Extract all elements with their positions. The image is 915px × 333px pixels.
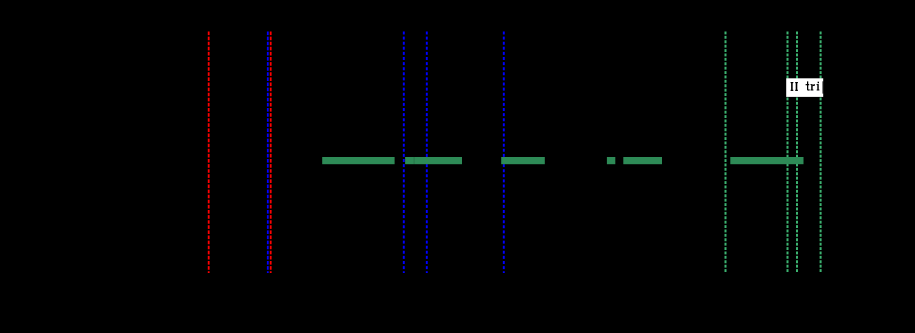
annotation label white box xyxy=(786,78,823,97)
blue dashed vline 4 xyxy=(503,32,505,274)
label clipped glyph stem at box edge xyxy=(822,81,825,93)
red dashed vline pair-right xyxy=(270,32,272,274)
label glyph i xyxy=(818,82,819,84)
label glyph I (2) xyxy=(795,82,798,83)
red dashed vline 1 xyxy=(208,32,210,274)
green bar 2 xyxy=(405,157,462,164)
bar 2/3 overlap seam xyxy=(413,157,416,164)
blue dashed vline pair-left xyxy=(267,32,269,274)
green dashed vline 1 xyxy=(725,32,727,274)
label glyph r xyxy=(811,84,812,90)
blue dashed vline 3 xyxy=(426,32,428,274)
label glyph I (1) xyxy=(791,81,824,93)
green bar 1 xyxy=(322,157,394,164)
green dashed vline 3 xyxy=(796,32,798,274)
green bar 6 xyxy=(730,157,803,164)
green dashed vline 2 xyxy=(787,32,789,274)
label glyph t xyxy=(807,81,810,90)
green bar 5 xyxy=(623,157,662,164)
green bar 3 xyxy=(501,157,545,164)
green dashed vline 4 xyxy=(820,32,822,274)
blue dashed vline 2 xyxy=(403,32,405,274)
green bar 4 xyxy=(607,157,615,164)
